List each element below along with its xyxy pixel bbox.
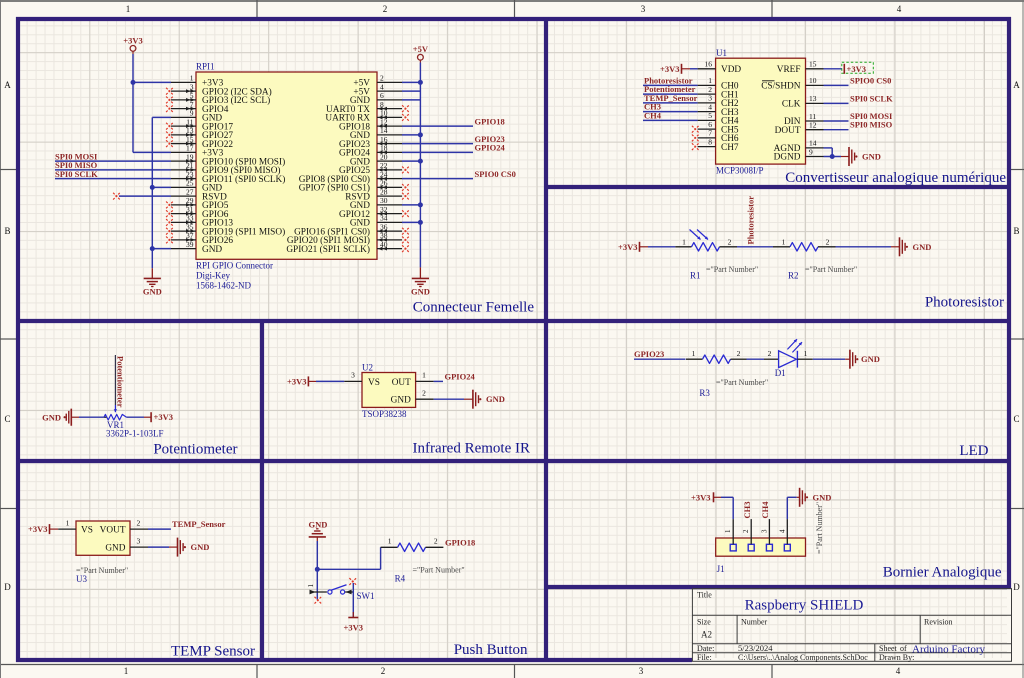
junction pin34 [418,220,423,225]
U1 pin VDD 16 [698,60,742,75]
svg-text:15: 15 [186,135,194,144]
wire pin30 to rail [402,204,420,206]
svg-text:1: 1 [692,349,696,358]
junction pin30 [418,202,423,207]
connector RPI1 left pin numbers [186,74,194,249]
IC U1 MCP3008 body [716,58,806,164]
svg-text:7: 7 [190,100,194,109]
power port +3V3 at VDD + wire [660,64,698,74]
wire pin4 to rail [402,90,420,92]
svg-text:B: B [4,226,10,236]
svg-text:GND: GND [191,542,210,552]
svg-text:17: 17 [186,144,194,153]
svg-text:DOUT: DOUT [775,126,801,136]
svg-text:9: 9 [190,109,194,118]
svg-text:GPIO23: GPIO23 [634,349,664,359]
svg-text:SW1: SW1 [357,591,375,601]
svg-text:Potentiometer: Potentiometer [115,356,125,408]
svg-text:16: 16 [705,60,713,69]
photoresistor R1 [675,237,737,251]
U2 pin GND 2 + wire [391,388,464,405]
svg-text:10: 10 [809,76,817,85]
svg-text:2: 2 [728,237,732,246]
J1 pins [733,519,787,544]
svg-text:6: 6 [708,120,712,129]
svg-text:+3V3: +3V3 [154,412,173,422]
svg-text:SPI0 MISO: SPI0 MISO [850,120,893,130]
svg-text:U1: U1 [716,48,727,58]
power port +3V3 (TEMP) + wire pin1 [28,519,76,534]
svg-text:of: of [900,644,907,653]
wire GND to J1 pin4 [787,497,796,519]
svg-text:J1: J1 [717,564,725,574]
connector RPI1 left no-connect marks [166,88,173,244]
svg-text:26: 26 [380,179,388,188]
wire D1 to ground [813,358,845,360]
svg-text:RPI1: RPI1 [196,62,215,72]
svg-text:SPIO0 CS0: SPIO0 CS0 [850,75,891,85]
svg-text:U2: U2 [362,362,373,372]
svg-text:A2: A2 [701,630,712,640]
svg-text:R4: R4 [395,573,406,583]
svg-text:1: 1 [124,666,129,676]
wire +3V3 to pin 17 [133,151,171,153]
no-connect marks CH5 CH6 CH7 [692,126,699,150]
svg-text:VOUT: VOUT [100,526,126,536]
svg-text:20: 20 [380,152,388,161]
power port +3V3 (bornier) + wire [691,492,733,519]
svg-text:2: 2 [383,4,388,14]
wire GND stub pin 39 [152,248,171,250]
svg-text:1: 1 [422,371,426,380]
wire wiper vertical [114,355,116,405]
power port +3V3 (photoresistor) [618,242,639,252]
svg-text:+3V3: +3V3 [287,376,306,386]
net label GPIO24 + wire [402,143,505,153]
wire R3 to D1 [747,358,765,360]
D1 light arrows [787,339,802,352]
wire junction to R4 (L shape) [317,547,380,569]
net label Photoresistor + wire (CH0) [643,75,698,85]
ground symbol GND (IR) [464,390,505,409]
svg-text:13: 13 [809,94,817,103]
net label Potentiometer + wire (CH1) [643,84,698,94]
svg-text:2: 2 [137,519,141,528]
power port +5V (connector right) [413,44,429,63]
svg-text:3: 3 [760,529,768,533]
svg-text:22: 22 [380,161,388,170]
svg-text:39: 39 [186,240,194,249]
resistor R4 [381,536,444,551]
connector RPI1 right no-connect marks [402,105,409,252]
svg-text:GND: GND [143,287,162,297]
net label SPIO0 CS0 + wire [402,169,516,179]
svg-text:C:\Users\..\Analog Components: C:\Users\..\Analog Components.SchDoc [738,653,868,662]
svg-text:+5V: +5V [413,44,429,54]
svg-text:3: 3 [190,82,194,91]
svg-text:12: 12 [809,121,817,130]
svg-text:4: 4 [708,102,712,111]
svg-text:23: 23 [186,170,194,179]
svg-text:D: D [1013,582,1020,592]
svg-text:32: 32 [380,205,388,214]
svg-text:GND: GND [105,544,125,554]
junction push button [315,567,320,572]
svg-text:C: C [4,414,10,424]
junction pin2 [418,80,423,85]
svg-text:8: 8 [708,137,712,146]
svg-text:25: 25 [186,179,194,188]
svg-text:Number: Number [741,618,768,627]
svg-text:GND: GND [391,396,411,406]
wire R2 to ground [836,246,892,248]
footer RPI GPIO Connector Digi-Key 1568-1462-ND [196,261,273,291]
U1 pins CH0-CH7 [698,76,739,153]
svg-text:+3V3: +3V3 [28,524,47,534]
svg-text:GND: GND [42,412,61,422]
power port +3V3 (potentiometer) [151,412,173,422]
svg-text:6: 6 [380,91,384,100]
sheet zone border lines [0,0,1024,2]
svg-text:CS/SHDN: CS/SHDN [761,82,801,92]
wire GPIO23 to R3 [634,358,686,360]
svg-text:14: 14 [380,126,388,135]
svg-text:3: 3 [708,94,712,103]
svg-text:3: 3 [641,4,646,14]
power port +3V3 (push button) [344,612,363,633]
svg-text:GND: GND [486,394,505,404]
svg-text:+3V3: +3V3 [660,64,679,74]
connector J1 body [716,538,806,556]
svg-text:Sheet: Sheet [879,644,898,653]
svg-text:3: 3 [639,666,644,676]
svg-text:+3V3: +3V3 [847,64,866,74]
svg-text:Drawn By:: Drawn By: [879,653,914,662]
net label SPI0 MISO + wire [55,160,171,170]
svg-text:CH4: CH4 [644,110,662,120]
wire RSVD pin 27 stub [119,195,171,197]
LED D1 [764,349,813,367]
svg-text:5/23/2024: 5/23/2024 [738,643,773,653]
svg-text:TEMP_Sensor: TEMP_Sensor [172,519,226,529]
wire GND stub pin 9 [152,116,171,118]
svg-text:1568-1462-ND: 1568-1462-ND [196,281,251,291]
svg-text:15: 15 [809,60,817,69]
svg-text:GPIO18: GPIO18 [475,116,505,126]
U1 right pin names [761,65,801,163]
connector RPI1 left pins [171,82,196,248]
IC U2 TSOP38238 body [362,373,416,408]
svg-text:2: 2 [768,349,772,358]
svg-text:U3: U3 [76,574,87,584]
svg-text:1: 1 [724,529,732,533]
switch SW1 [307,584,353,595]
power port +3V3 (connector left) [123,36,142,55]
svg-text:VREF: VREF [777,65,801,75]
svg-text:2: 2 [708,85,712,94]
wire +3V3 to pin 1 [133,81,171,83]
resistor R2 [773,237,836,251]
svg-text:MCP3008I/P: MCP3008I/P [716,166,764,176]
svg-text:Photoresistor: Photoresistor [746,196,756,245]
junction AGND/DGND [830,154,835,159]
svg-text:SPIO0 CS0: SPIO0 CS0 [475,169,516,179]
svg-text:11: 11 [809,112,816,121]
svg-text:1: 1 [804,349,808,358]
svg-text:+3V3: +3V3 [618,242,637,252]
svg-text:+3V3: +3V3 [691,493,710,503]
svg-text:A: A [4,80,11,90]
svg-text:GND: GND [861,354,880,364]
ground symbol GND (bornier) [797,488,832,507]
svg-text:18: 18 [380,144,388,153]
wire GND stub pin 25 [152,186,171,188]
svg-text:Bornier Analogique: Bornier Analogique [883,565,1002,581]
ground symbol GND (potentiometer) [42,409,79,426]
net label GPIO18 + wire [402,116,505,126]
svg-text:37: 37 [186,231,194,240]
wire pin6 to rail [402,99,420,101]
svg-text:CH4: CH4 [760,501,770,519]
svg-text:Potentiometer: Potentiometer [153,442,237,458]
svg-text:36: 36 [380,222,388,231]
connector RPI1 right pins [377,82,402,250]
net label SPI0 MOSI + wire [55,151,171,161]
ground symbol GND (left) [143,268,162,296]
svg-text:12: 12 [380,117,388,126]
junction pin20 [418,159,423,164]
wire +3V3 vertical rail left [132,54,134,152]
svg-text:1: 1 [708,76,712,85]
svg-text:="Part Number": ="Part Number" [706,265,758,274]
svg-text:Digi-Key: Digi-Key [196,271,230,281]
junction GND pin25 [150,185,155,190]
svg-text:40: 40 [380,240,388,249]
net label SPI0 SCLK + wire [55,169,171,179]
svg-text:1: 1 [190,74,194,83]
svg-text:GPIO18: GPIO18 [445,537,475,547]
svg-text:34: 34 [380,214,388,223]
svg-text:1: 1 [388,536,392,545]
svg-text:19: 19 [186,152,194,161]
svg-text:LED: LED [959,443,988,459]
svg-text:GND: GND [202,245,222,255]
svg-text:CH7: CH7 [721,143,739,153]
wire pin14 to rail [402,134,420,136]
wire +5V / GND vertical rail right [419,63,421,268]
svg-text:21: 21 [186,161,194,170]
junction +3V3/pin1 [131,80,136,85]
svg-text:VS: VS [368,378,380,388]
svg-text:29: 29 [186,196,194,205]
svg-text:GND: GND [862,152,881,162]
power port +3V3 at VREF with compile mask [824,62,874,74]
svg-text:2: 2 [381,666,386,676]
svg-text:="Part Number": ="Part Number" [716,378,768,387]
J1 pads [730,544,790,551]
U3 pin VOUT 2 + wire [130,519,171,529]
net label SPI0 MOSI + wire (DIN) [824,111,893,121]
power port +3V3 (IR) + wire [287,376,344,386]
wire GND down to junction [316,541,318,569]
resistor R3 [686,349,747,363]
svg-text:9: 9 [809,147,813,156]
no-connect SW1 pin1 [315,597,322,604]
wire pin20 to rail [402,160,420,162]
svg-text:28: 28 [380,187,388,196]
svg-text:Date:: Date: [697,644,714,653]
no-connect RSVD left [113,193,120,200]
svg-text:R1: R1 [690,271,701,281]
IC U3 temp sensor body [76,521,130,555]
svg-text:3: 3 [137,537,141,546]
svg-text:7: 7 [708,129,712,138]
svg-text:35: 35 [186,222,194,231]
svg-text:TEMP Sensor: TEMP Sensor [171,644,255,660]
svg-text:Connecteur Femelle: Connecteur Femelle [413,300,535,316]
svg-text:OUT: OUT [392,378,411,388]
wire GND to VR1 [79,416,104,418]
U1 right pins [806,60,824,157]
svg-text:4: 4 [896,666,901,676]
junction pin14 [418,132,423,137]
svg-text:1: 1 [66,519,70,528]
U3 pin GND 3 + wire [130,537,169,547]
svg-text:27: 27 [186,187,194,196]
svg-text:VDD: VDD [721,65,741,75]
svg-text:D1: D1 [775,368,786,378]
net label SPI0 SCLK + wire (CLK) [824,93,894,103]
svg-text:33: 33 [186,214,194,223]
svg-text:5: 5 [190,91,194,100]
svg-text:Title: Title [697,591,712,600]
svg-text:SPI0 SCLK: SPI0 SCLK [55,169,98,179]
svg-text:2: 2 [380,74,384,83]
svg-text:30: 30 [380,196,388,205]
svg-text:4: 4 [897,4,902,14]
svg-text:2: 2 [826,237,830,246]
svg-text:GPIO24: GPIO24 [475,143,506,153]
VR1 wiper arrow [114,405,116,412]
net label CH4 + wire [643,110,698,120]
U2 pin VS 3 [344,371,380,388]
svg-text:1: 1 [682,237,686,246]
wire pin2 to rail [402,81,420,83]
svg-text:+3V3: +3V3 [344,623,363,633]
svg-text:Arduino Factory: Arduino Factory [912,644,986,656]
title block labels [697,591,952,663]
connector RPI1 body [196,72,377,259]
svg-text:2: 2 [434,536,438,545]
svg-text:RPI GPIO Connector: RPI GPIO Connector [196,261,273,271]
svg-text:="Part Number": ="Part Number" [413,565,465,574]
svg-text:3362P-1-103LF: 3362P-1-103LF [106,429,164,439]
svg-text:16: 16 [380,135,388,144]
svg-text:="Part Number": ="Part Number" [815,502,824,554]
svg-text:D: D [4,582,11,592]
svg-text:TSOP38238: TSOP38238 [362,409,407,419]
svg-text:Push Button: Push Button [454,642,528,658]
svg-text:13: 13 [186,126,194,135]
svg-text:C: C [1013,414,1019,424]
ground symbol GND (ADC) [841,147,881,166]
net label GPIO23 + wire [402,134,505,144]
svg-text:CH3: CH3 [742,502,752,519]
svg-text:GPIO24: GPIO24 [445,371,476,381]
svg-text:4: 4 [778,529,786,533]
svg-text:10: 10 [380,109,388,118]
svg-text:3: 3 [351,371,355,380]
svg-text:Infrared Remote IR: Infrared Remote IR [413,441,530,457]
svg-text:R2: R2 [788,271,799,281]
svg-text:1: 1 [782,237,786,246]
wire junction down to switch [316,569,318,599]
connector RPI1 right pin numbers [380,74,388,249]
no-connect SW1 pin2 [349,578,356,585]
wire R1 to R2 [737,246,773,248]
svg-text:31: 31 [186,205,194,214]
svg-text:B: B [1013,226,1019,236]
wire GND vertical rail left [151,117,153,268]
svg-text:24: 24 [380,170,388,179]
svg-text:A: A [1013,80,1020,90]
net label SPI0 MISO + wire (DOUT) [824,120,893,130]
ground symbol GND (push button) [309,519,328,541]
J1 pin numbers rotated [724,529,786,533]
wire +3V3 to R1 [640,246,649,248]
ground symbol GND (LED) [845,350,880,369]
net label TEMP_Sensor + wire (CH2) [643,93,698,103]
svg-text:="Part Number": ="Part Number" [805,265,857,274]
junction GND pin39 [150,246,155,251]
potentiometer VR1 [104,414,127,420]
svg-text:GND: GND [813,493,832,503]
connector RPI1 right pin names [286,79,370,255]
svg-text:Size: Size [697,618,711,627]
svg-text:Raspberry SHIELD: Raspberry SHIELD [745,598,864,614]
wire DGND to ground [824,156,842,158]
wire SW1 to +3V3 [352,583,354,618]
U3 pin names [81,526,126,554]
svg-text:GND: GND [913,242,932,252]
svg-text:1: 1 [307,584,315,588]
ground symbol GND (photoresistor) [891,237,931,256]
net label SPIO0 CS0 + wire (CS/SHDN) [824,75,892,85]
svg-text:GND: GND [309,519,328,529]
wire AGND to DGND [824,148,833,157]
svg-text:Photoresistor: Photoresistor [925,295,1004,311]
svg-text:+3V3: +3V3 [123,36,142,46]
svg-text:5: 5 [708,111,712,120]
svg-text:11: 11 [186,117,193,126]
svg-text:CLK: CLK [782,100,801,110]
svg-text:VS: VS [81,526,93,536]
svg-text:2: 2 [737,349,741,358]
svg-text:Revision: Revision [924,618,952,627]
wire VR1 to +3V3 [127,416,145,418]
svg-text:38: 38 [380,231,388,240]
svg-text:Convertisseur analogique numér: Convertisseur analogique numérique [785,170,1006,186]
title block frame [692,589,1011,662]
ground symbol GND (right) [411,267,430,296]
svg-text:GND: GND [411,287,430,297]
U2 pin OUT 1 + wire [392,371,443,388]
net label CH3 + wire [643,102,698,112]
svg-text:R3: R3 [699,388,710,398]
svg-text:4: 4 [380,82,384,91]
ground symbol GND (TEMP) [169,538,209,557]
svg-text:1: 1 [126,4,131,14]
